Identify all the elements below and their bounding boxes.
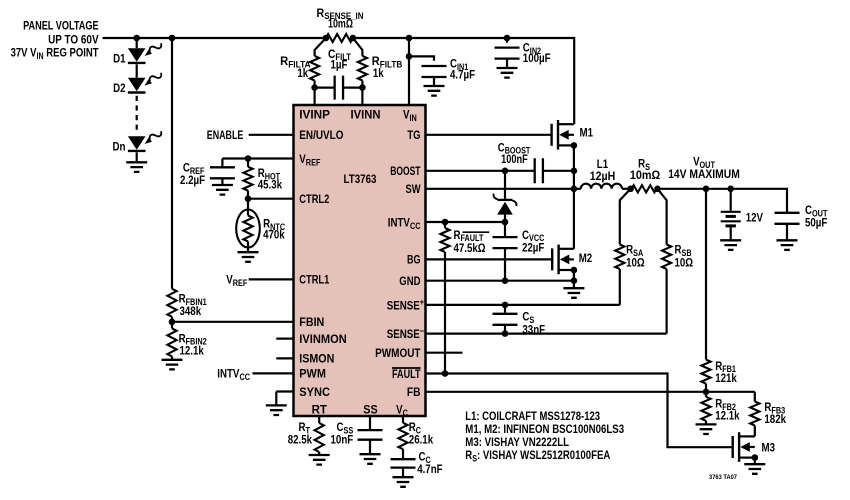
- svg-text:3763 TA07: 3763 TA07: [709, 474, 738, 481]
- designator CFILT: [328, 47, 351, 62]
- wire: CIN1 to ground: [433, 77, 435, 86]
- designator CREF: [183, 161, 205, 176]
- value RFB3 182k: [764, 412, 786, 426]
- designator D1: [113, 52, 126, 66]
- wire: INTVCC pin line: [426, 219, 509, 226]
- svg-text:D2: D2: [113, 81, 126, 95]
- wire: SS pin stub: [369, 416, 371, 430]
- designator CIN2: [523, 41, 541, 56]
- designator RS: [638, 157, 650, 172]
- note RS part number: [465, 448, 610, 463]
- svg-text:1k: 1k: [297, 66, 308, 80]
- value RFILTB 1k: [373, 66, 384, 80]
- node FBIN junction dot: [169, 319, 176, 326]
- svg-text:14V MAXIMUM: 14V MAXIMUM: [668, 167, 740, 181]
- resistor RHOT: [243, 159, 252, 199]
- svg-text:12.1k: 12.1k: [715, 409, 740, 423]
- pin BG: [407, 253, 421, 267]
- pin CTRL2: [299, 192, 329, 206]
- ground below battery: [720, 240, 741, 250]
- net label INTVCC (PWM): [217, 367, 250, 382]
- svg-text:10mΩ: 10mΩ: [630, 168, 661, 182]
- resistor RFB1: [701, 360, 710, 392]
- ground below RFB2: [696, 424, 717, 434]
- svg-text:UP TO 60V: UP TO 60V: [48, 32, 99, 46]
- svg-text:348k: 348k: [180, 304, 202, 318]
- svg-text:22µF: 22µF: [522, 240, 544, 254]
- value CC 4.7nF: [417, 462, 442, 476]
- designator M3: [762, 441, 776, 455]
- svg-text:IVINP: IVINP: [299, 108, 330, 122]
- pin TG: [407, 128, 420, 142]
- node M1 source junction dot: [571, 142, 578, 149]
- svg-text:Dn: Dn: [113, 140, 126, 154]
- wire: VOUT rail down to RFB1: [705, 189, 707, 360]
- resistor RFB2: [701, 392, 710, 425]
- designator RFB2: [715, 396, 736, 411]
- pin ISMON: [299, 352, 334, 366]
- wire: M1 source down to SW node: [573, 145, 575, 188]
- wire: PWMOUT stub: [426, 352, 463, 354]
- wire: top rail to VIN pin: [406, 35, 413, 105]
- svg-text:FB: FB: [407, 385, 421, 399]
- transistor M2: [552, 245, 574, 275]
- op-amp U1 LT3763 IC body: [294, 105, 426, 416]
- note M3 part number: [465, 435, 569, 449]
- wire: RFILTA to IVINP node: [311, 81, 318, 106]
- wire: ISMON stub: [276, 357, 293, 359]
- designator RFILTB: [372, 54, 403, 69]
- value CVCC 22uF: [522, 240, 544, 254]
- designator RT: [299, 420, 311, 435]
- svg-text:82.5k: 82.5k: [288, 432, 313, 446]
- pin BOOST: [390, 164, 421, 178]
- svg-text:M2: M2: [579, 251, 593, 265]
- ground below CIN1: [424, 86, 445, 96]
- ground below CIN2: [497, 68, 518, 78]
- value RHOT 45.3k: [258, 177, 283, 191]
- pin RT: [312, 403, 328, 417]
- note L1 part number: [465, 409, 600, 423]
- wire: diode chain drop from top rail: [133, 35, 140, 49]
- pin FBIN: [299, 315, 324, 329]
- designator CBOOST: [498, 140, 531, 155]
- wire: CIN2 to ground: [506, 59, 508, 68]
- svg-text:L1: COILCRAFT MSS1278-123: L1: COILCRAFT MSS1278-123: [465, 409, 600, 423]
- svg-text:26.1k: 26.1k: [409, 432, 434, 446]
- resistor RFILTB: [358, 56, 367, 81]
- wire: VC pin stub: [402, 416, 404, 423]
- svg-text:PWM: PWM: [299, 367, 326, 381]
- wire: input top rail from panel voltage to M1 drain: [103, 38, 575, 124]
- designator RNTC: [263, 217, 285, 232]
- pin PWMOUT: [375, 346, 421, 360]
- svg-text:4.7nF: 4.7nF: [417, 462, 442, 476]
- pin VIN: [403, 108, 417, 123]
- svg-text:M1: M1: [580, 125, 594, 139]
- svg-text:INTV: INTV: [217, 367, 239, 381]
- svg-text:CC: CC: [410, 221, 421, 231]
- transistor M1: [552, 120, 574, 150]
- wire: IVINMON stub: [276, 338, 293, 340]
- value RFBIN1 348k: [180, 304, 202, 318]
- svg-text:SENSE: SENSE: [387, 327, 420, 341]
- thermistor RNTC: [236, 199, 260, 253]
- svg-text:12V: 12V: [746, 211, 763, 225]
- svg-text:IN: IN: [37, 51, 44, 61]
- wire: SW pin line to switch node: [426, 188, 574, 190]
- designator RSB: [675, 243, 692, 258]
- svg-text:SYNC: SYNC: [299, 385, 330, 399]
- wire: CSS to ground: [369, 440, 371, 455]
- value CS 33nF: [522, 322, 545, 336]
- svg-text:REG POINT: REG POINT: [44, 46, 100, 60]
- pin IVINN: [351, 108, 381, 122]
- designator CIN1: [450, 57, 468, 72]
- pin FB: [407, 385, 421, 399]
- node M2 source junction dot: [571, 267, 578, 274]
- designator M2: [579, 251, 593, 265]
- svg-text:37V V: 37V V: [11, 46, 37, 60]
- svg-text:121k: 121k: [715, 371, 737, 385]
- svg-text:10Ω: 10Ω: [626, 256, 645, 270]
- svg-text:IVINN: IVINN: [351, 108, 381, 122]
- svg-text:+: +: [420, 297, 424, 307]
- wire: RFBIN1 to FBIN node: [171, 317, 173, 329]
- svg-text:10nF: 10nF: [331, 432, 354, 446]
- light squiggle arrow on Dn: [143, 129, 163, 147]
- value RFB1 121k: [715, 371, 737, 385]
- ground below CC: [393, 477, 414, 487]
- ground below RNTC: [238, 252, 259, 262]
- value CIN1 4.7uF: [450, 67, 475, 81]
- svg-text:SENSE: SENSE: [387, 298, 420, 312]
- wire: M2 drain up to SW node: [573, 189, 575, 249]
- inductor L1: [574, 184, 631, 189]
- pin SENSE-: [387, 326, 424, 341]
- pin EN/UVLO: [299, 128, 343, 142]
- wire: M2 source stub to ground: [573, 281, 575, 289]
- resistor RFBIN2: [167, 328, 176, 356]
- diode D2: [128, 78, 146, 93]
- wire: RFILTB to IVINN node: [359, 81, 366, 106]
- pin IVINP: [299, 108, 330, 122]
- svg-text:REF: REF: [306, 157, 321, 167]
- pin VREF (upper): [299, 152, 321, 167]
- resistor RSENSE_IN: [323, 34, 357, 42]
- wire: ENABLE to EN/UVLO pin: [249, 134, 294, 136]
- wire: vertical rail to RFBIN1 from top rail: [169, 35, 176, 289]
- designator Dn: [113, 140, 126, 154]
- svg-text:M3: VISHAY VN2222LL: M3: VISHAY VN2222LL: [465, 435, 569, 449]
- capacitor COUT: [775, 213, 800, 241]
- capacitor CBOOST: [535, 158, 543, 183]
- wire: SENSE+ line: [426, 304, 620, 306]
- value RFBIN2 12.1k: [180, 344, 205, 358]
- net label 14V MAXIMUM: [668, 167, 740, 181]
- designator COUT: [805, 203, 828, 218]
- net label: panel voltage input line 1: [23, 18, 99, 32]
- wire: INTVCC to PWM pin: [253, 372, 294, 374]
- wire: RSENSE_IN right to RFILTB: [353, 38, 363, 56]
- designator M1: [580, 125, 594, 139]
- value CREF 2.2uF: [180, 173, 205, 187]
- svg-text:33nF: 33nF: [522, 322, 545, 336]
- value CSS 10nF: [331, 432, 354, 446]
- node M3 source junction dot: [752, 454, 759, 461]
- svg-text:10mΩ: 10mΩ: [328, 17, 353, 31]
- net label VREF (CTRL1): [226, 273, 248, 288]
- wire: FB pin line: [426, 389, 755, 396]
- svg-text:D1: D1: [113, 52, 126, 66]
- svg-text:GND: GND: [399, 274, 420, 288]
- svg-text:50µF: 50µF: [805, 215, 827, 229]
- value CBOOST 100nF: [501, 152, 528, 166]
- designator RC: [409, 420, 422, 435]
- svg-text:47.5kΩ: 47.5kΩ: [454, 241, 486, 255]
- ground below M2: [563, 288, 584, 298]
- wire: M3 source to ground: [754, 458, 756, 465]
- designator RHOT: [258, 166, 281, 181]
- svg-text:100nF: 100nF: [501, 152, 528, 166]
- pin SYNC: [299, 385, 330, 399]
- wire: VREF pin line: [222, 155, 293, 162]
- value battery 12V: [746, 211, 763, 225]
- wire: top rail to CIN2: [504, 35, 511, 43]
- svg-text:10Ω: 10Ω: [675, 256, 694, 270]
- wire: BG pin to M2 gate: [426, 258, 553, 260]
- resistor RFAULT: [440, 222, 449, 374]
- svg-text:CC: CC: [240, 372, 251, 382]
- svg-text:PANEL VOLTAGE: PANEL VOLTAGE: [23, 18, 99, 32]
- wire: D1 to D2: [136, 64, 138, 78]
- ground below CSS: [360, 454, 381, 464]
- wire: FAULT line to M3 gate: [426, 370, 733, 447]
- ground below RFBIN2: [162, 360, 183, 370]
- svg-text:182k: 182k: [764, 412, 786, 426]
- designator RFBIN2: [179, 331, 207, 346]
- ground below diode chain: [126, 162, 147, 172]
- node battery junction dot: [727, 186, 734, 193]
- value RT 82.5k: [288, 432, 313, 446]
- capacitor CC: [391, 459, 416, 467]
- ground below SYNC: [266, 405, 287, 415]
- designator RFAULT: [454, 228, 484, 243]
- value RSB 10Ohm: [675, 256, 694, 270]
- resistor RT: [315, 423, 324, 452]
- pin INTVCC: [388, 215, 421, 230]
- transistor M3: [733, 432, 755, 462]
- resistor RSA: [615, 189, 630, 305]
- svg-text:FBIN: FBIN: [299, 315, 324, 329]
- pin SENSE+: [387, 297, 424, 312]
- svg-text:LT3763: LT3763: [344, 172, 377, 186]
- battery 12V: [721, 189, 741, 241]
- svg-text:REF: REF: [233, 278, 248, 288]
- diode D1: [128, 48, 146, 63]
- designator RFB3: [764, 400, 785, 415]
- wire: RS right to VOUT rail: [658, 189, 788, 213]
- capacitor CFILT: [315, 76, 363, 100]
- svg-text:2.2µF: 2.2µF: [180, 173, 205, 187]
- designator CSS: [337, 420, 354, 435]
- svg-text:BOOST: BOOST: [390, 164, 421, 178]
- svg-text:TG: TG: [407, 128, 420, 142]
- svg-text:SW: SW: [406, 182, 422, 196]
- svg-text:45.3k: 45.3k: [258, 177, 283, 191]
- value RFAULT 47.5kOhm: [454, 241, 486, 255]
- diode D boost schottky: [494, 171, 517, 222]
- diode Dn: [128, 136, 146, 151]
- svg-text:PWMOUT: PWMOUT: [375, 346, 421, 360]
- ground below COUT: [777, 240, 798, 250]
- designator CS: [522, 309, 534, 324]
- svg-text:EN/UVLO: EN/UVLO: [299, 128, 343, 142]
- designator RSENSE_IN: [317, 6, 364, 21]
- svg-text:ISMON: ISMON: [299, 352, 334, 366]
- overline for FAULT pin: [392, 367, 421, 369]
- net label VOUT: [693, 155, 715, 170]
- wire: BOOST pin line: [426, 168, 578, 175]
- wire: RC to CC: [402, 449, 404, 459]
- net label: panel voltage input line 3: [11, 46, 100, 61]
- resistor RFILTA: [310, 56, 319, 81]
- IC name LT3763: [344, 172, 377, 186]
- value L1 12uH: [590, 169, 616, 183]
- value RFB2 12.1k: [715, 409, 740, 423]
- wire: RT to ground: [318, 452, 320, 455]
- svg-text:4.7µF: 4.7µF: [450, 67, 475, 81]
- pin PWM: [299, 367, 326, 381]
- value CFILT 1uF: [331, 57, 348, 71]
- wire: CREF to ground: [221, 178, 223, 185]
- designator CC: [419, 450, 432, 465]
- wire: SENSE- line: [426, 333, 667, 335]
- pin SW: [406, 182, 422, 196]
- svg-text:M3: M3: [762, 441, 776, 455]
- capacitor CIN1: [422, 66, 447, 77]
- svg-text:−: −: [420, 326, 424, 336]
- resistor RFBIN1: [167, 289, 176, 317]
- svg-text:IN: IN: [410, 113, 417, 123]
- node VOUT junction dot: [703, 186, 710, 193]
- svg-text:SS: SS: [363, 403, 377, 417]
- wire: M2 source to GND line: [573, 270, 575, 281]
- wire: CC to ground: [402, 468, 404, 478]
- wire: FBIN node to IC FBIN pin: [172, 321, 294, 323]
- value RSA 10Ohm: [626, 256, 645, 270]
- svg-text:INTV: INTV: [388, 215, 410, 229]
- svg-text:12µH: 12µH: [590, 169, 616, 183]
- value RFILTA 1k: [297, 66, 308, 80]
- svg-text:470k: 470k: [263, 228, 285, 242]
- designator CVCC: [522, 228, 545, 243]
- wire: dashed continuation D2 to Dn: [136, 96, 138, 134]
- designator D2: [113, 81, 126, 95]
- svg-text:: VISHAY WSL2512R0100FEA: : VISHAY WSL2512R0100FEA: [477, 448, 611, 462]
- designator RSA: [626, 243, 643, 258]
- capacitor CS: [493, 302, 518, 337]
- designator RFBIN1: [179, 292, 207, 307]
- svg-text:RT: RT: [312, 403, 328, 417]
- value RC 26.1k: [409, 432, 434, 446]
- svg-text:ENABLE: ENABLE: [207, 128, 244, 142]
- pin FAULT (active low): [392, 367, 421, 381]
- wire: Dn to ground: [136, 152, 138, 162]
- capacitor CVCC: [493, 222, 518, 281]
- figure number 3763 TA07: [709, 474, 738, 481]
- svg-text:1k: 1k: [373, 66, 384, 80]
- net label ENABLE: [207, 128, 244, 142]
- value RSENSE_IN 10mOhm: [328, 17, 353, 31]
- ground below CREF: [212, 185, 233, 195]
- designator RFILTA: [280, 54, 311, 69]
- node M2 ground junction dot: [571, 277, 578, 284]
- wire: CREF stub down: [221, 159, 223, 167]
- resistor RSB: [658, 189, 672, 334]
- ground below RT: [309, 455, 330, 465]
- value COUT 50uF: [805, 215, 827, 229]
- resistor RS: [627, 185, 661, 192]
- resistor RC: [398, 423, 407, 449]
- pin GND: [399, 274, 420, 288]
- wire: TG pin to M1 gate: [426, 134, 552, 136]
- note M1 M2 part number: [465, 422, 624, 436]
- value CIN2 100uF: [523, 51, 551, 65]
- svg-text:BG: BG: [407, 253, 421, 267]
- pin IVINMON: [299, 332, 346, 346]
- svg-text:FAULT: FAULT: [392, 367, 421, 381]
- pin SS: [363, 403, 377, 417]
- light squiggle arrow on D2: [143, 70, 163, 88]
- wire: CTRL2 pin line: [245, 195, 294, 202]
- value RS 10mOhm: [630, 168, 661, 182]
- wire: VREF to CTRL1 pin: [249, 278, 294, 280]
- light squiggle arrow on D1: [143, 41, 163, 59]
- svg-text:CTRL2: CTRL2: [299, 192, 329, 206]
- resistor RFB3: [750, 392, 759, 437]
- wire: GND pin line: [426, 277, 574, 284]
- wire: VIN to CIN1: [406, 53, 434, 61]
- value RNTC 470k: [263, 228, 285, 242]
- capacitor CREF: [210, 167, 235, 178]
- pin CTRL1: [299, 273, 329, 287]
- designator L1: [597, 157, 609, 171]
- svg-text:CTRL1: CTRL1: [299, 273, 329, 287]
- wire: RT pin stub: [318, 416, 320, 423]
- wire: SYNC to ground: [276, 392, 293, 406]
- capacitor CIN2: [495, 48, 520, 59]
- overline on RFAULT subscript: [463, 231, 490, 233]
- svg-text:100µF: 100µF: [523, 51, 551, 65]
- node SW junction dot: [571, 186, 578, 193]
- svg-text:IVINMON: IVINMON: [299, 332, 346, 346]
- pin VC: [396, 403, 408, 418]
- capacitor CSS: [358, 430, 383, 440]
- designator RFB1: [715, 359, 736, 374]
- wire: RFBIN2 to ground: [171, 356, 173, 359]
- svg-text:1µF: 1µF: [331, 57, 348, 71]
- svg-text:12.1k: 12.1k: [180, 344, 205, 358]
- wire: RSENSE_IN left to RFILTA: [315, 38, 326, 56]
- net label: panel voltage input line 2: [48, 32, 99, 46]
- ground below M3: [744, 464, 765, 474]
